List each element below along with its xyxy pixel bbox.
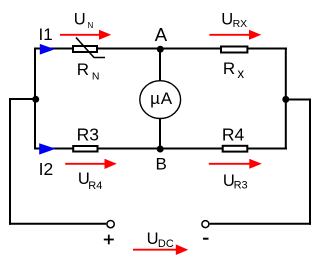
wire meter branch lower (159, 117, 161, 149)
label + polarity (104, 235, 114, 245)
svg-text:R3: R3 (77, 124, 99, 144)
svg-text:N: N (88, 21, 94, 30)
label URX (221, 11, 247, 30)
wire bottom bridge bus (node B row) (34, 148, 287, 150)
label - polarity (203, 238, 209, 240)
wire right stub to outer loop (286, 99, 311, 101)
junction node A (157, 46, 164, 53)
svg-text:A: A (155, 24, 168, 45)
junction node B (157, 146, 164, 153)
svg-text:R: R (77, 60, 89, 79)
svg-text:B: B (156, 155, 167, 174)
voltage arrow UN (red) (60, 30, 111, 40)
current arrow I1 (blue) (40, 44, 55, 55)
svg-text:U: U (147, 230, 159, 248)
voltage arrow UR3 (red) (209, 159, 262, 169)
label UR3 (223, 172, 248, 192)
svg-text:I2: I2 (39, 159, 54, 179)
svg-text:RX: RX (233, 18, 248, 30)
resistor RN adjustment diagonal (76, 38, 105, 58)
wire right outer vertical (309, 99, 311, 225)
wire bottom left to + terminal (9, 223, 106, 225)
svg-text:R: R (223, 59, 235, 78)
wire left stub to outer loop (10, 98, 35, 100)
terminal - circle (202, 221, 209, 228)
svg-text:x: x (237, 66, 244, 81)
svg-text:N: N (92, 70, 100, 82)
voltage arrow URX (red) (209, 30, 261, 40)
wire left outer vertical (9, 98, 11, 225)
wire right bridge vertical (285, 48, 287, 150)
resistor R3 body (73, 146, 97, 152)
svg-text:DC: DC (158, 238, 174, 250)
voltage arrow UDC (red) (133, 244, 188, 255)
svg-text:U: U (221, 11, 233, 29)
wire meter branch upper (159, 49, 161, 83)
label UR4 (78, 170, 102, 192)
wire top bus (node A row) (34, 48, 287, 50)
svg-text:R3: R3 (234, 180, 248, 192)
junction node left (32, 96, 39, 103)
svg-text:R4: R4 (222, 124, 245, 144)
wire left bridge vertical (34, 48, 36, 150)
meter U1 microammeter circle (140, 81, 181, 119)
junction node right (282, 96, 289, 103)
resistor R4 body (223, 146, 248, 152)
current arrow I2 (blue) (39, 143, 56, 154)
label RX (223, 59, 245, 81)
svg-text:R4: R4 (88, 180, 102, 192)
svg-text:U: U (74, 11, 86, 29)
label RN (77, 60, 100, 82)
resistor RX body (221, 47, 247, 53)
svg-text:µA: µA (150, 89, 173, 108)
wire bottom right to - terminal (210, 223, 311, 225)
resistor RN body (73, 46, 97, 52)
svg-text:I1: I1 (39, 25, 53, 44)
terminal + circle (107, 220, 114, 227)
voltage arrow UR4 (red) (65, 159, 117, 169)
label UDC (147, 230, 174, 250)
label UN (74, 11, 94, 31)
